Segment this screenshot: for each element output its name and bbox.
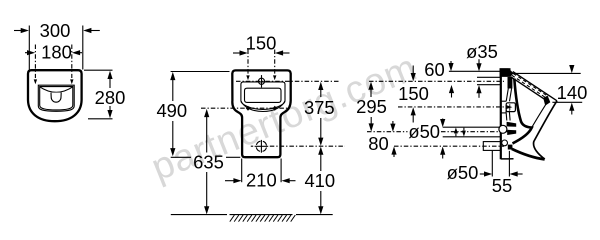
dim text 80	[368, 133, 388, 154]
dim 150 arrow left	[233, 52, 242, 54]
inner front surface line	[532, 104, 546, 128]
bowl rim inner	[40, 87, 73, 110]
bowl front wall section (black thick)	[513, 79, 532, 144]
dim 375 arrow up	[318, 82, 323, 90]
bottom drain hole	[256, 141, 266, 151]
dim text ø50 upper	[408, 121, 440, 142]
outlet2 black bit	[508, 145, 513, 150]
svg-text:partnertorg.com: partnertorg.com	[146, 47, 423, 190]
bowl rim outer	[38, 85, 74, 111]
dim text 295	[356, 96, 387, 117]
fixing box	[506, 103, 515, 112]
body outline	[232, 70, 290, 157]
arrow to hole right	[70, 79, 73, 84]
hidden rim edge dashed lower	[512, 75, 547, 98]
arrow into fixing box	[506, 105, 513, 109]
dim 210 extension left	[241, 159, 243, 183]
dim 280 arrow up	[107, 71, 112, 79]
dim text 140	[557, 82, 588, 103]
dim 180 arrow right	[78, 52, 82, 54]
centerline fixing hole right	[71, 45, 73, 79]
top fixing hole symbol	[258, 78, 264, 84]
bowl lip arc	[40, 87, 73, 93]
top rim section (black)	[500, 68, 514, 77]
dim text 55	[492, 175, 512, 196]
outlet1 flange circle	[499, 125, 507, 133]
svg-text:150: 150	[398, 83, 429, 104]
dim 140 extension bottom	[552, 101, 582, 103]
dim 280 bottom extension	[88, 118, 113, 120]
bowl opening outer	[241, 82, 285, 110]
svg-text:ø50: ø50	[447, 162, 479, 183]
outlet1 connector blocks (black)	[507, 122, 517, 127]
inlet centerline	[369, 80, 504, 82]
urinal body outline	[28, 70, 82, 121]
dim text 150	[246, 32, 277, 53]
dim 300 arrow left	[14, 30, 23, 32]
dim 60 arrow down	[450, 61, 452, 65]
dim 140 extension top	[513, 72, 581, 74]
dim 55 arrow left	[480, 173, 486, 175]
dim 280 top extension	[84, 69, 113, 71]
dim 210 extension right	[280, 159, 282, 183]
dim text 300	[40, 20, 71, 41]
drain outlet U	[51, 93, 61, 103]
dim ø50 lower arrow up	[440, 147, 445, 155]
dim ø35 arrow down	[478, 59, 480, 65]
fixing hole centerline	[398, 106, 506, 108]
outlet2 elbow circle	[502, 140, 508, 146]
dim text ø50 lower	[447, 162, 479, 183]
svg-text:280: 280	[95, 87, 126, 108]
body top edge	[500, 68, 511, 70]
back wall channel lines	[506, 89, 508, 102]
svg-text:635: 635	[193, 152, 224, 173]
dim ø50 pipe arrows inside	[454, 127, 458, 133]
dim text 150	[398, 83, 429, 104]
drain centerline horizontal	[270, 145, 345, 147]
bottom edge near wall	[501, 158, 514, 160]
dim 300 extension line left	[28, 26, 30, 70]
dim 55 extension left	[491, 151, 493, 177]
bottom thick edge	[512, 149, 545, 159]
dim 210 arrow left	[225, 180, 235, 182]
dim 55 arrow right	[516, 173, 523, 175]
dim text 180	[41, 41, 72, 62]
arrow to hole left	[246, 75, 249, 80]
dim 375 arrow down	[320, 118, 322, 140]
svg-text:410: 410	[304, 170, 335, 191]
dim 295 arrow down	[370, 117, 372, 126]
centerline hole right	[274, 50, 276, 75]
dim text 280	[95, 87, 126, 108]
dim text 635	[193, 152, 224, 173]
dim 410 arrow down	[320, 191, 322, 209]
centerline holes horizontal	[236, 80, 339, 82]
dim text 60	[424, 59, 444, 80]
dim 60 arrow up	[449, 85, 454, 93]
pedestal bottom leader	[171, 156, 191, 158]
centerline hole left	[247, 50, 249, 75]
dim 490 top extension	[171, 71, 230, 73]
diamond marker left	[246, 106, 250, 111]
dim 635 arrow up	[204, 109, 209, 117]
svg-text:295: 295	[356, 96, 387, 117]
bowl bottom arc	[241, 101, 285, 112]
back wall bar section (black)	[508, 77, 513, 89]
dim 300 extension line right	[82, 26, 84, 70]
fixing box side lines	[501, 100, 506, 102]
dim 410 arrow up	[318, 147, 323, 155]
dim 140 arrow up	[569, 103, 574, 111]
dim 295 arrow up	[368, 82, 373, 90]
dim 280 arrow down	[107, 110, 112, 118]
dim text 490	[156, 100, 187, 121]
dim ø35 arrow up	[476, 85, 481, 93]
arrow to hole right	[273, 75, 276, 80]
bowl opening inner	[245, 88, 282, 102]
outlet2 centerline	[394, 145, 504, 147]
svg-text:490: 490	[156, 100, 187, 121]
floor hatching	[230, 215, 295, 222]
dim 635 arrow down	[206, 172, 208, 209]
svg-text:55: 55	[492, 175, 512, 196]
dim 150 arrow up	[411, 107, 416, 115]
svg-text:150: 150	[246, 32, 277, 53]
svg-text:210: 210	[246, 170, 277, 191]
wall mounting face	[500, 69, 502, 160]
svg-text:300: 300	[40, 20, 71, 41]
outlet1 centerline	[367, 131, 408, 133]
outlet2 pipe (hidden stub)	[483, 142, 501, 151]
dim text 375	[304, 97, 335, 118]
svg-text:180: 180	[41, 41, 72, 62]
outlet1 pipe walls	[443, 126, 500, 128]
rim lip end cap (black)	[543, 96, 550, 106]
dim 150 arrow down	[412, 66, 414, 75]
lines below fixing box	[505, 111, 508, 121]
svg-text:60: 60	[424, 59, 444, 80]
centerline fixing hole left	[34, 45, 36, 79]
dim 180 arrow left	[25, 52, 29, 54]
dim 210 arrow right	[288, 180, 296, 182]
floor line	[171, 214, 227, 216]
svg-text:ø35: ø35	[466, 41, 498, 62]
dim 300 arrow right	[89, 30, 100, 32]
outlet1 short lines	[507, 130, 513, 132]
dim 80 arrow up	[391, 146, 396, 154]
svg-text:ø50: ø50	[408, 121, 440, 142]
rim cover band bottom edge	[511, 77, 546, 101]
front outline	[534, 101, 557, 159]
dim 150 arrow right	[281, 52, 289, 54]
rim cover band top edge	[513, 72, 557, 101]
dim ø50 upper arrow down	[442, 119, 444, 122]
fixing hole symbol	[509, 104, 511, 110]
spud pipe walls	[477, 76, 500, 78]
svg-text:80: 80	[368, 133, 388, 154]
dim 55 extension right	[508, 151, 510, 177]
dim 140 arrow down (solid wedge)	[569, 65, 574, 73]
dim 80 arrow down	[392, 121, 394, 126]
dim 490 arrow up	[170, 72, 175, 80]
arrow to hole left	[34, 79, 37, 84]
dim 490 arrow down	[172, 121, 174, 150]
hidden rim edge dashed upper	[513, 74, 548, 97]
dim text 410	[304, 170, 335, 191]
dim text 210	[246, 170, 277, 191]
diamond marker right	[273, 106, 277, 111]
top extension line	[449, 70, 501, 72]
dim text ø35	[466, 41, 498, 62]
svg-text:375: 375	[304, 97, 335, 118]
svg-text:140: 140	[557, 82, 588, 103]
hidden centerline mid	[201, 107, 289, 109]
